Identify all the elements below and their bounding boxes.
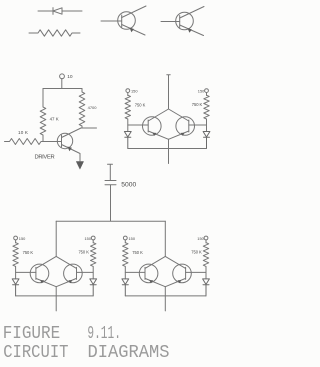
- svg-text:10 K: 10 K: [18, 130, 29, 135]
- svg-text:5000: 5000: [121, 181, 136, 188]
- svg-text:4700: 4700: [88, 105, 98, 110]
- middle rail wire: [56, 220, 165, 222]
- FF1 diode right: [203, 132, 210, 149]
- svg-text:750 K: 750 K: [23, 250, 34, 255]
- wire base: [43, 141, 62, 143]
- FF3 bottom rail wire: [125, 295, 206, 297]
- FF1 diode left: [124, 132, 131, 149]
- FF2 transistor right: [56, 256, 82, 286]
- FF1 wire base left: [128, 124, 148, 126]
- svg-text:10: 10: [67, 74, 73, 80]
- FF2 bottom tail wire: [55, 287, 57, 311]
- svg-text:750 K: 750 K: [135, 103, 146, 108]
- FF3 top drop wire: [164, 221, 166, 256]
- svg-text:DRIVER: DRIVER: [35, 154, 55, 160]
- svg-text:CIRCUIT: CIRCUIT: [3, 342, 68, 363]
- FF2 diode right: [90, 279, 97, 296]
- resistor 4700: [79, 89, 85, 129]
- svg-text:DIAGRAMS: DIAGRAMS: [88, 342, 170, 363]
- FF2 bottom rail wire: [16, 295, 94, 297]
- FF3 wire base right: [186, 271, 206, 273]
- FF3 resistor 750K left: [123, 243, 128, 279]
- svg-text:150: 150: [85, 236, 92, 241]
- FF1 top stub wire: [167, 75, 170, 109]
- FF3 transistor left: [139, 256, 165, 286]
- wire collector output: [81, 127, 97, 129]
- FF2 left supply terminal 150: [14, 236, 18, 243]
- FF2 resistor 750K right: [91, 243, 96, 279]
- FF1 right supply terminal 150: [205, 89, 209, 96]
- resistor legend: [29, 30, 80, 36]
- FF3 bottom tail wire: [164, 287, 166, 311]
- FF3 wire base left: [125, 271, 145, 273]
- FF3 transistor right: [165, 256, 191, 286]
- svg-text:150: 150: [198, 89, 205, 94]
- FF2 diode left: [12, 279, 19, 296]
- FF1 left supply terminal 150: [126, 89, 130, 96]
- FF1 bottom rail wire: [128, 148, 207, 150]
- svg-text:150: 150: [129, 236, 136, 241]
- diode D legend: [38, 8, 82, 15]
- FF3 right supply terminal 150: [204, 236, 208, 243]
- svg-text:47 K: 47 K: [50, 116, 59, 121]
- FF3 resistor 750K right: [203, 243, 208, 279]
- svg-text:9.11.: 9.11.: [87, 323, 121, 344]
- FF2 top drop wire: [55, 221, 57, 256]
- svg-text:150: 150: [19, 236, 26, 241]
- transistor Q legend 1: [101, 6, 146, 35]
- svg-text:FIGURE: FIGURE: [3, 323, 61, 344]
- svg-text:750 K: 750 K: [78, 249, 89, 254]
- svg-text:150: 150: [197, 236, 204, 241]
- resistor 47K: [40, 89, 46, 142]
- FF1 resistor 750K left: [125, 95, 130, 131]
- FF2 transistor left: [30, 256, 56, 286]
- svg-text:750 K: 750 K: [192, 102, 203, 107]
- FF2 resistor 750K left: [13, 243, 18, 279]
- FF3 diode right: [203, 279, 210, 296]
- capacitor 5000: [105, 164, 116, 221]
- driver supply terminal 10V: [60, 74, 65, 89]
- wire top rail: [43, 88, 82, 90]
- transistor Q legend 2: [161, 7, 204, 36]
- FF3 diode left: [122, 279, 129, 296]
- FF1 resistor 750K right: [204, 95, 209, 131]
- svg-text:150: 150: [131, 89, 138, 94]
- svg-text:750 K: 750 K: [132, 250, 143, 255]
- FF1 bottom tail wire: [168, 139, 170, 163]
- FF1 wire base right: [189, 124, 207, 126]
- ground arrow: [76, 162, 83, 170]
- svg-text:750 K: 750 K: [191, 249, 202, 254]
- FF3 left supply terminal 150: [123, 236, 127, 243]
- FF2 right supply terminal 150: [91, 236, 95, 243]
- FF2 wire base right: [77, 271, 94, 273]
- FF2 wire base left: [16, 271, 36, 273]
- transistor Q driver: [57, 128, 81, 161]
- FF1 transistor left: [143, 109, 169, 139]
- resistor 10 K input: [5, 139, 44, 145]
- FF1 transistor right: [169, 109, 195, 139]
